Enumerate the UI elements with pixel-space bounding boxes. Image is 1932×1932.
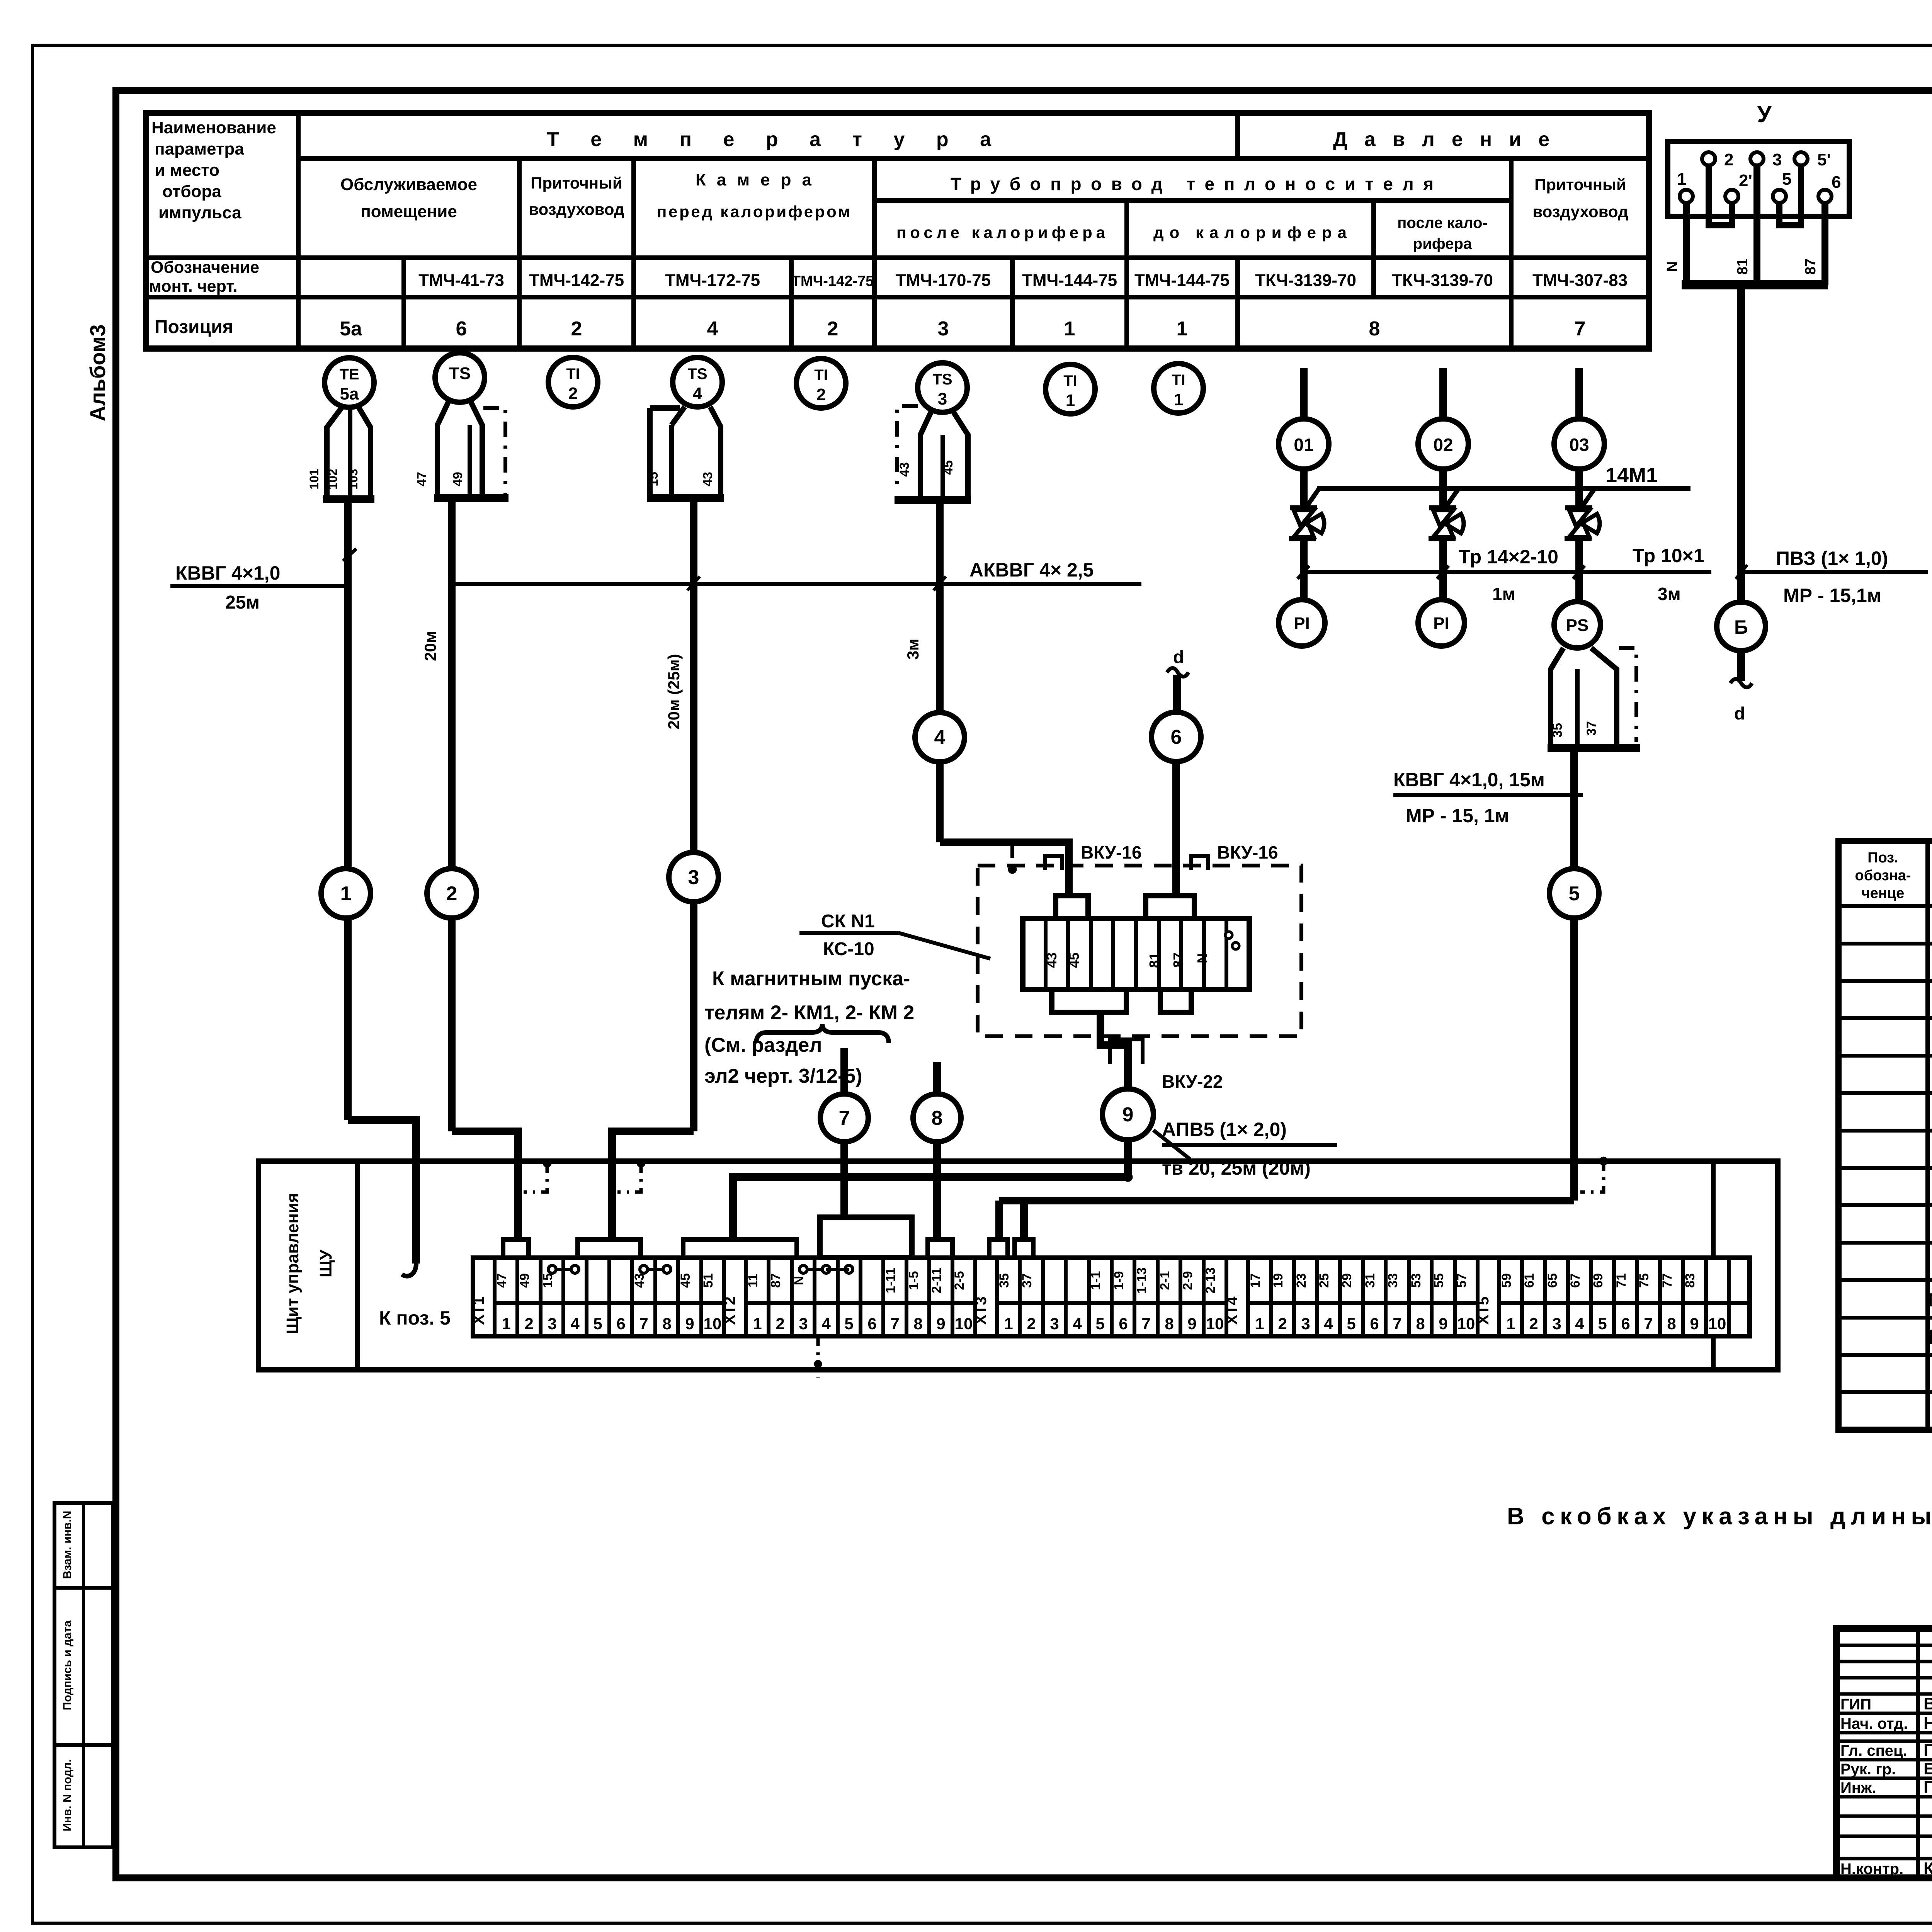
svg-text:ВКУ-22: ВКУ-22 <box>1162 1071 1223 1092</box>
svg-text:обозна-: обозна- <box>1855 867 1911 884</box>
svg-text:9: 9 <box>1439 1315 1447 1333</box>
svg-text:Елинсон: Елинсон <box>1923 1759 1932 1778</box>
svg-text:75: 75 <box>1637 1273 1651 1288</box>
svg-text:3: 3 <box>1552 1315 1561 1333</box>
svg-text:17: 17 <box>1248 1273 1263 1288</box>
svg-text:77: 77 <box>1660 1273 1675 1288</box>
svg-text:03: 03 <box>1569 435 1589 455</box>
svg-text:55: 55 <box>1432 1273 1446 1288</box>
svg-text:ТМЧ-142-75: ТМЧ-142-75 <box>529 271 624 290</box>
panel rotated label <box>283 1193 335 1334</box>
terminal strip XT1..XT5 <box>470 1258 1750 1336</box>
svg-text:103: 103 <box>346 469 360 489</box>
svg-text:49: 49 <box>517 1273 532 1288</box>
svg-text:Приточный: Приточный <box>531 174 622 192</box>
svg-text:TS: TS <box>932 371 952 388</box>
cable cap into KC-10 right <box>1146 896 1194 918</box>
svg-text:25м: 25м <box>225 592 260 613</box>
svg-text:6: 6 <box>456 318 467 340</box>
svg-text:ХТ3: ХТ3 <box>973 1296 990 1325</box>
svg-text:01: 01 <box>1294 435 1313 455</box>
conduit mark VKU-16 left <box>1045 842 1142 870</box>
svg-text:8: 8 <box>662 1315 671 1333</box>
svg-text:3: 3 <box>938 389 947 408</box>
svg-text:7: 7 <box>1644 1315 1653 1333</box>
svg-text:7: 7 <box>839 1107 850 1129</box>
svg-text:2: 2 <box>827 318 838 340</box>
shield bond dash-dot at wire 4 <box>1008 846 1017 874</box>
svg-text:2-1: 2-1 <box>1158 1271 1172 1290</box>
gauge circle PI #2 <box>1418 600 1464 646</box>
svg-text:3: 3 <box>799 1315 808 1333</box>
svg-text:4: 4 <box>934 726 946 749</box>
node circle 2 <box>427 869 476 918</box>
svg-text:5а: 5а <box>340 384 359 403</box>
svg-text:3: 3 <box>938 318 949 340</box>
svg-text:4: 4 <box>821 1315 831 1333</box>
sensor TS-6 circle <box>435 353 485 402</box>
svg-text:11: 11 <box>746 1274 760 1287</box>
sensor PS head (wire pocket 35/37) <box>1548 648 1640 748</box>
svg-text:8: 8 <box>1667 1315 1676 1333</box>
svg-text:67: 67 <box>1568 1273 1583 1288</box>
wire 9 into panel <box>1124 1140 1132 1179</box>
svg-text:8: 8 <box>1165 1315 1173 1333</box>
svg-text:83: 83 <box>1683 1273 1697 1288</box>
svg-text:АКВВГ 4× 2,5: АКВВГ 4× 2,5 <box>969 559 1094 581</box>
svg-text:К магнитным пуска-: К магнитным пуска- <box>712 968 910 990</box>
label K poz.5 <box>379 1307 451 1329</box>
svg-text:31: 31 <box>1363 1273 1378 1288</box>
svg-text:5: 5 <box>593 1315 602 1333</box>
label APV5 (1x2.0) tv20 25m with leader <box>1153 1119 1337 1179</box>
svg-text:Инв. N подл.: Инв. N подл. <box>61 1759 74 1831</box>
svg-text:Н.контр.: Н.контр. <box>1840 1861 1903 1878</box>
svg-text:6: 6 <box>616 1315 625 1333</box>
svg-text:Д а в л е н и е: Д а в л е н и е <box>1333 128 1549 151</box>
svg-text:4: 4 <box>693 384 702 403</box>
svg-text:57: 57 <box>1454 1273 1469 1288</box>
svg-text:69: 69 <box>1591 1273 1605 1288</box>
control panel box <box>259 1161 1778 1370</box>
wire to starters (poz.7) <box>840 1048 848 1094</box>
svg-text:53: 53 <box>1409 1273 1423 1288</box>
svg-text:2': 2' <box>1739 171 1752 190</box>
svg-text:47: 47 <box>495 1273 509 1288</box>
svg-text:1: 1 <box>340 883 352 905</box>
svg-text:33: 33 <box>1386 1273 1400 1288</box>
svg-text:45: 45 <box>941 460 956 475</box>
svg-text:Рук. гр.: Рук. гр. <box>1840 1761 1896 1778</box>
svg-text:1: 1 <box>1177 318 1188 340</box>
svg-text:20м (25м): 20м (25м) <box>665 654 683 729</box>
svg-text:3м: 3м <box>904 639 922 660</box>
svg-text:рифера: рифера <box>1413 235 1472 252</box>
svg-text:6: 6 <box>1621 1315 1630 1333</box>
svg-text:2: 2 <box>776 1315 784 1333</box>
connector U jumper 2-2' <box>1709 165 1732 225</box>
node circle 3 <box>669 852 718 902</box>
materials table <box>1838 841 1932 1430</box>
materials table header texts <box>1855 850 1932 901</box>
svg-text:Взам. инв.N: Взам. инв.N <box>61 1511 74 1579</box>
sensor TS-3 head (wire pocket 43/45) <box>895 406 971 500</box>
cable label KVVG 4x1.0 25m <box>170 562 349 613</box>
svg-text:2: 2 <box>1724 150 1733 169</box>
svg-text:43: 43 <box>701 472 715 486</box>
svg-text:Альбом3: Альбом3 <box>85 324 110 421</box>
connector U wire 87 <box>1803 203 1825 285</box>
svg-text:87: 87 <box>1803 259 1819 275</box>
header table: parameters / temperature / pressure <box>146 113 1649 349</box>
svg-text:10: 10 <box>1708 1315 1726 1333</box>
svg-text:МР - 15, 1м: МР - 15, 1м <box>1406 805 1509 827</box>
connector U terminals bottom row 1,2',5,6 <box>1677 170 1841 203</box>
svg-text:101: 101 <box>307 469 321 489</box>
svg-text:КВВГ 4×1,0: КВВГ 4×1,0 <box>175 562 280 584</box>
svg-text:2-11: 2-11 <box>929 1268 944 1293</box>
node circle B <box>1717 602 1765 651</box>
sensor TS-4 circle <box>673 357 722 407</box>
svg-text:N: N <box>1194 953 1210 963</box>
svg-text:TE: TE <box>339 366 359 383</box>
svg-text:25: 25 <box>1317 1273 1332 1288</box>
node circle 03 <box>1554 419 1604 469</box>
panel internal bus B (PS wire to XT3) <box>999 1201 1574 1241</box>
svg-text:5: 5 <box>1598 1315 1607 1333</box>
svg-text:ВКУ-16: ВКУ-16 <box>1217 842 1278 862</box>
svg-text:ТКЧ-3139-70: ТКЧ-3139-70 <box>1392 271 1493 290</box>
wire from U bus down to B <box>1737 289 1745 602</box>
svg-text:ченце: ченце <box>1862 885 1905 901</box>
svg-text:2-5: 2-5 <box>952 1271 967 1290</box>
svg-text:10: 10 <box>1206 1315 1224 1333</box>
svg-text:перед калорифером: перед калорифером <box>657 202 850 221</box>
svg-text:1: 1 <box>1174 390 1183 409</box>
cable cap below KC-10 right <box>1160 990 1191 1012</box>
svg-text:после калорифера: после калорифера <box>896 223 1105 241</box>
title block <box>1837 1629 1932 1878</box>
svg-text:81: 81 <box>1146 952 1162 968</box>
note about lengths in brackets <box>1507 1503 1932 1530</box>
duct stub d above node 6 <box>1167 647 1189 712</box>
svg-text:Нач. отд.: Нач. отд. <box>1840 1715 1908 1732</box>
svg-text:1м: 1м <box>1492 584 1515 604</box>
sensor TS-3 circle <box>918 363 967 412</box>
svg-text:Металлорукав Р3-Ц-Х-15 ТУ22-3: Металлорукав Р3-Ц-Х-15 ТУ22-3988-77 м <box>1928 1290 1932 1311</box>
svg-text:87: 87 <box>1170 952 1186 968</box>
svg-text:9: 9 <box>936 1315 945 1333</box>
wire from TS-4 down to terminal XT1 (poz.3) <box>612 498 694 1240</box>
svg-text:и место: и место <box>155 161 219 180</box>
svg-text:4: 4 <box>1575 1315 1584 1333</box>
svg-text:TI: TI <box>814 367 828 384</box>
svg-text:8: 8 <box>932 1107 943 1129</box>
svg-text:2-13: 2-13 <box>1203 1267 1218 1294</box>
svg-text:ТМЧ-142-75: ТМЧ-142-75 <box>792 273 874 289</box>
svg-text:02: 02 <box>1433 435 1453 455</box>
svg-text:TI: TI <box>1063 372 1077 389</box>
svg-text:5': 5' <box>1817 150 1831 169</box>
svg-text:Б: Б <box>1734 616 1748 638</box>
junction box dashed enclosure <box>978 866 1301 1036</box>
svg-text:(См. раздел: (См. раздел <box>704 1034 822 1056</box>
svg-text:параметра: параметра <box>155 139 244 158</box>
conduit mark VKU-22 <box>1110 1039 1223 1092</box>
sensor TE-5a head (wire pocket 101/102/103) <box>307 407 374 499</box>
svg-text:TI: TI <box>566 366 580 383</box>
svg-text:5: 5 <box>1095 1315 1104 1333</box>
svg-text:ТМЧ-170-75: ТМЧ-170-75 <box>896 271 991 290</box>
svg-text:8: 8 <box>1416 1315 1425 1333</box>
svg-text:7: 7 <box>639 1315 648 1333</box>
connector U label <box>1757 101 1772 127</box>
svg-text:2: 2 <box>571 318 582 340</box>
svg-text:1: 1 <box>502 1315 510 1333</box>
svg-text:ХТ2: ХТ2 <box>721 1296 738 1325</box>
svg-text:ТМЧ-144-75: ТМЧ-144-75 <box>1022 271 1117 290</box>
cable cap XT1 8 - XT2 2 <box>683 1240 797 1258</box>
svg-text:29: 29 <box>1340 1273 1354 1288</box>
svg-text:ТМЧ-172-75: ТМЧ-172-75 <box>665 271 760 290</box>
svg-text:43: 43 <box>632 1273 647 1288</box>
svg-text:14М1: 14М1 <box>1605 464 1658 487</box>
svg-text:37: 37 <box>1584 721 1599 736</box>
svg-text:9: 9 <box>1187 1315 1196 1333</box>
svg-text:8: 8 <box>913 1315 922 1333</box>
svg-text:Поз.: Поз. <box>1867 850 1898 866</box>
wire from TS-6 down to terminal XT1 (poz.2) <box>452 498 518 1240</box>
cable cap XT2 4-6 (tall) <box>820 1217 912 1258</box>
svg-text:45: 45 <box>1066 952 1082 968</box>
wire to starters (poz.8) <box>933 1062 941 1094</box>
node circle 6 <box>1151 712 1201 762</box>
svg-text:43: 43 <box>897 462 912 477</box>
svg-text:КВВГ 4×1,0, 15м: КВВГ 4×1,0, 15м <box>1393 769 1545 791</box>
header table texts <box>149 118 1628 340</box>
wire 8 into panel cap <box>933 1142 941 1241</box>
svg-text:10: 10 <box>1457 1315 1475 1333</box>
svg-text:9: 9 <box>685 1315 694 1333</box>
materials table rows <box>1928 913 1932 1423</box>
gauge circle PI #1 <box>1279 600 1325 646</box>
svg-text:Горохов: Горохов <box>1923 1741 1932 1760</box>
label SK N1 / KC-10 with leader <box>799 911 990 959</box>
svg-text:ТМЧ-144-75: ТМЧ-144-75 <box>1134 271 1230 290</box>
wire 7 into panel cap <box>840 1142 848 1217</box>
svg-text:d: d <box>1734 703 1745 723</box>
svg-text:воздуховод: воздуховод <box>529 200 624 218</box>
svg-text:помещение: помещение <box>361 202 457 221</box>
svg-text:10: 10 <box>704 1315 722 1333</box>
sensor TI-2b circle <box>796 359 846 408</box>
svg-text:37: 37 <box>1020 1273 1034 1288</box>
svg-text:У: У <box>1757 101 1772 127</box>
svg-text:7: 7 <box>1575 318 1586 340</box>
wire length label 20m (25m) <box>665 654 683 729</box>
valve 14M1 #2 <box>1429 469 1464 600</box>
svg-text:1: 1 <box>1004 1315 1013 1333</box>
svg-text:1: 1 <box>1677 170 1686 189</box>
pipe bus 14M1 <box>1317 464 1690 488</box>
conduit mark VKU-16 right <box>1191 842 1278 870</box>
svg-text:59: 59 <box>1499 1273 1514 1288</box>
node circle 8 <box>913 1094 961 1142</box>
svg-text:после кало-: после кало- <box>1397 214 1487 231</box>
cable cap XT2 7 <box>928 1240 952 1258</box>
svg-text:1-5: 1-5 <box>906 1271 921 1290</box>
svg-text:61: 61 <box>1522 1273 1537 1288</box>
wire length label 3m <box>904 639 922 660</box>
svg-text:К а м е р а: К а м е р а <box>696 170 812 189</box>
svg-text:10: 10 <box>955 1315 973 1333</box>
svg-text:7: 7 <box>1393 1315 1401 1333</box>
svg-text:Кран 14М1, Ду15 ГОСТ 21345-: Кран 14М1, Ду15 ГОСТ 21345-78 <box>1928 1326 1932 1349</box>
connector U wire 81 <box>1735 165 1757 285</box>
valve 14M1 #1 <box>1289 469 1324 600</box>
shield bond dash-dot at wire 3 <box>617 1159 645 1192</box>
svg-text:6: 6 <box>1832 173 1841 192</box>
svg-text:20м: 20м <box>421 631 439 661</box>
svg-text:ПВЗ (1× 1,0): ПВЗ (1× 1,0) <box>1776 548 1888 569</box>
cable cap into KC-10 left <box>1056 896 1088 918</box>
svg-text:35: 35 <box>1550 723 1565 738</box>
svg-text:102: 102 <box>326 469 340 489</box>
svg-text:PI: PI <box>1433 614 1449 633</box>
svg-text:51: 51 <box>701 1273 716 1288</box>
node circle 02 <box>1418 419 1468 469</box>
valve 14M1 #3 <box>1565 469 1600 600</box>
svg-text:1: 1 <box>1506 1315 1515 1333</box>
svg-text:47: 47 <box>415 472 429 486</box>
svg-text:Инж.: Инж. <box>1840 1779 1876 1796</box>
cable cap XT3 1 <box>989 1240 1008 1258</box>
svg-text:1: 1 <box>753 1315 762 1333</box>
svg-text:2: 2 <box>1278 1315 1287 1333</box>
svg-text:3м: 3м <box>1658 584 1681 604</box>
svg-text:2: 2 <box>446 883 457 905</box>
svg-text:4: 4 <box>707 318 718 340</box>
svg-text:воздуховод: воздуховод <box>1532 202 1628 221</box>
impulse line stub above node 01 <box>1300 368 1308 419</box>
svg-text:7: 7 <box>890 1315 899 1333</box>
sensor TI-2 circle <box>548 357 598 407</box>
connector U wire N <box>1664 203 1686 285</box>
svg-text:65: 65 <box>1545 1273 1560 1288</box>
connector U terminals top row 2,3,5' <box>1702 150 1831 169</box>
sensor TS-4 head (wire pocket 15/43) <box>646 407 724 498</box>
svg-text:15: 15 <box>541 1273 555 1288</box>
svg-text:4: 4 <box>570 1315 580 1333</box>
svg-text:5: 5 <box>1569 883 1580 905</box>
svg-text:КС-10: КС-10 <box>823 939 874 959</box>
wire from TS-3 through node 4 to junction box <box>940 500 1069 896</box>
break tick on wire 1 <box>343 549 356 561</box>
node circle 01 <box>1279 419 1329 469</box>
svg-text:9: 9 <box>1122 1104 1134 1126</box>
svg-text:8: 8 <box>1369 318 1380 340</box>
panel bottom dash-dot <box>814 1336 822 1378</box>
svg-text:49: 49 <box>451 472 465 486</box>
svg-text:Котенко: Котенко <box>1923 1859 1932 1878</box>
note to magnetic starters <box>704 968 914 1087</box>
svg-text:6: 6 <box>1171 726 1182 748</box>
svg-text:71: 71 <box>1614 1273 1629 1288</box>
svg-text:Обслуживаемое: Обслуживаемое <box>340 175 477 194</box>
svg-text:6: 6 <box>867 1315 876 1333</box>
svg-text:1: 1 <box>1255 1315 1264 1333</box>
svg-text:импульса: импульса <box>158 203 241 222</box>
pipe line Tr 14x2-10 / Tr 10x1 <box>1304 545 1711 604</box>
sensor TE-5a circle <box>325 358 374 407</box>
cable cap XT1 1-2 <box>503 1240 529 1258</box>
node circle 4 <box>915 713 964 762</box>
svg-text:d: d <box>1173 647 1184 667</box>
node circle 5 <box>1549 869 1599 918</box>
svg-text:4: 4 <box>1324 1315 1333 1333</box>
svg-text:1: 1 <box>1066 391 1075 410</box>
svg-text:1: 1 <box>1064 318 1075 340</box>
svg-text:PI: PI <box>1294 614 1310 633</box>
junction box KC-10 body <box>1023 918 1249 990</box>
shield bond dash-dot at wire 5 <box>1580 1157 1608 1192</box>
svg-text:отбора: отбора <box>162 182 221 201</box>
svg-text:87: 87 <box>769 1273 783 1288</box>
svg-text:23: 23 <box>1294 1273 1309 1288</box>
svg-text:Позиция: Позиция <box>155 317 233 337</box>
svg-text:монт. черт.: монт. черт. <box>149 277 237 296</box>
svg-text:1-13: 1-13 <box>1134 1267 1149 1294</box>
svg-text:9: 9 <box>1690 1315 1699 1333</box>
svg-text:Тр 14×2-10: Тр 14×2-10 <box>1459 546 1558 568</box>
svg-text:5: 5 <box>1347 1315 1355 1333</box>
svg-text:3: 3 <box>1050 1315 1059 1333</box>
svg-text:ТМЧ-307-83: ТМЧ-307-83 <box>1532 271 1628 290</box>
svg-text:СК N1: СК N1 <box>821 911 875 932</box>
cable bus line AKVVG 4x2.5 <box>452 559 1141 590</box>
brace to starter wires <box>756 1024 889 1043</box>
sensor TS-6 head (wire pocket 47/49) <box>415 402 509 498</box>
svg-text:ГИП: ГИП <box>1840 1696 1871 1713</box>
sensor TI-1b circle <box>1154 364 1203 413</box>
wire from TE-5a down to panel (poz.1) <box>348 499 416 1276</box>
svg-text:2: 2 <box>816 385 826 404</box>
svg-text:К поз. 5: К поз. 5 <box>379 1307 451 1329</box>
wire length label 20m <box>421 631 439 661</box>
svg-text:1-1: 1-1 <box>1088 1271 1103 1290</box>
cable label KVVG 4x1.0 15m MR-15 1m <box>1393 769 1583 827</box>
cable cap below KC-10 left <box>1052 990 1126 1012</box>
panel internal bus A (node 9 to cap) <box>733 1172 1133 1241</box>
svg-text:3: 3 <box>688 866 699 889</box>
svg-text:2: 2 <box>1027 1315 1036 1333</box>
vertical label Albom 3 <box>85 324 110 421</box>
terminal jumpers <box>548 1265 853 1273</box>
svg-text:2-9: 2-9 <box>1180 1271 1195 1290</box>
svg-text:N: N <box>1664 261 1680 272</box>
wire from KC-10 down to node 9 <box>1100 1012 1128 1090</box>
connector U bottom bus <box>1682 280 1828 289</box>
svg-text:2: 2 <box>1529 1315 1538 1333</box>
svg-text:5а: 5а <box>340 318 362 340</box>
connector U body <box>1668 141 1849 216</box>
svg-text:6: 6 <box>1119 1315 1128 1333</box>
svg-text:5: 5 <box>1782 170 1791 189</box>
svg-text:Гл. спец.: Гл. спец. <box>1840 1742 1907 1759</box>
svg-text:N: N <box>792 1276 806 1286</box>
svg-text:ХТ4: ХТ4 <box>1224 1296 1241 1325</box>
svg-text:Нижник: Нижник <box>1923 1714 1932 1733</box>
